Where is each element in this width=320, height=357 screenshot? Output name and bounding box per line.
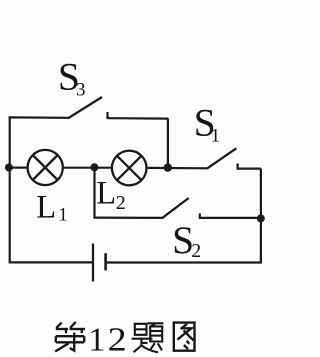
label S1 bbox=[194, 101, 220, 147]
wire: middle segment between lamps bbox=[63, 167, 112, 169]
label L2 bbox=[96, 176, 126, 215]
node A: junction between lamps bbox=[90, 163, 98, 171]
label L1 bbox=[36, 190, 68, 226]
svg-text:2: 2 bbox=[108, 320, 127, 357]
wire: S2 branch vertical from node A bbox=[93, 167, 95, 217]
battery cell: short plate bbox=[104, 253, 107, 270]
wire: bottom-right segment bbox=[106, 261, 262, 263]
wire: middle-left segment bbox=[10, 167, 28, 169]
switch S1 bbox=[207, 148, 261, 169]
node: left junction bbox=[5, 164, 13, 172]
svg-text:1: 1 bbox=[58, 204, 68, 225]
wire: top-left segment bbox=[9, 116, 69, 119]
svg-text:1: 1 bbox=[211, 125, 221, 146]
wire: vertical drop from top wire to node B bbox=[167, 119, 169, 168]
svg-text:L: L bbox=[36, 190, 56, 226]
node B: junction right of L2 bbox=[164, 163, 172, 171]
switch S3 bbox=[68, 97, 168, 119]
wire: left vertical bbox=[9, 117, 11, 262]
svg-text:2: 2 bbox=[116, 192, 126, 214]
lamp L2 bbox=[112, 151, 147, 186]
svg-text:1: 1 bbox=[88, 321, 105, 357]
caption: character 图 bbox=[174, 323, 195, 351]
lamp L1 bbox=[28, 150, 63, 185]
svg-text:3: 3 bbox=[76, 80, 86, 101]
switch S2 bbox=[162, 198, 261, 219]
wire: middle segment to S1 bbox=[147, 167, 208, 170]
wire: S2 branch horizontal bbox=[93, 217, 162, 219]
battery cell: long plate bbox=[92, 244, 94, 282]
wire: bottom-left segment bbox=[9, 261, 93, 263]
label S2 bbox=[172, 218, 201, 262]
svg-text:2: 2 bbox=[191, 241, 201, 262]
caption: character 题 bbox=[132, 323, 164, 352]
node C: junction S2 / right vertical bbox=[257, 214, 265, 222]
label S3 bbox=[58, 55, 86, 101]
svg-text:L: L bbox=[96, 176, 116, 212]
wire: right vertical bbox=[260, 169, 262, 263]
caption: character 第 bbox=[55, 322, 85, 352]
